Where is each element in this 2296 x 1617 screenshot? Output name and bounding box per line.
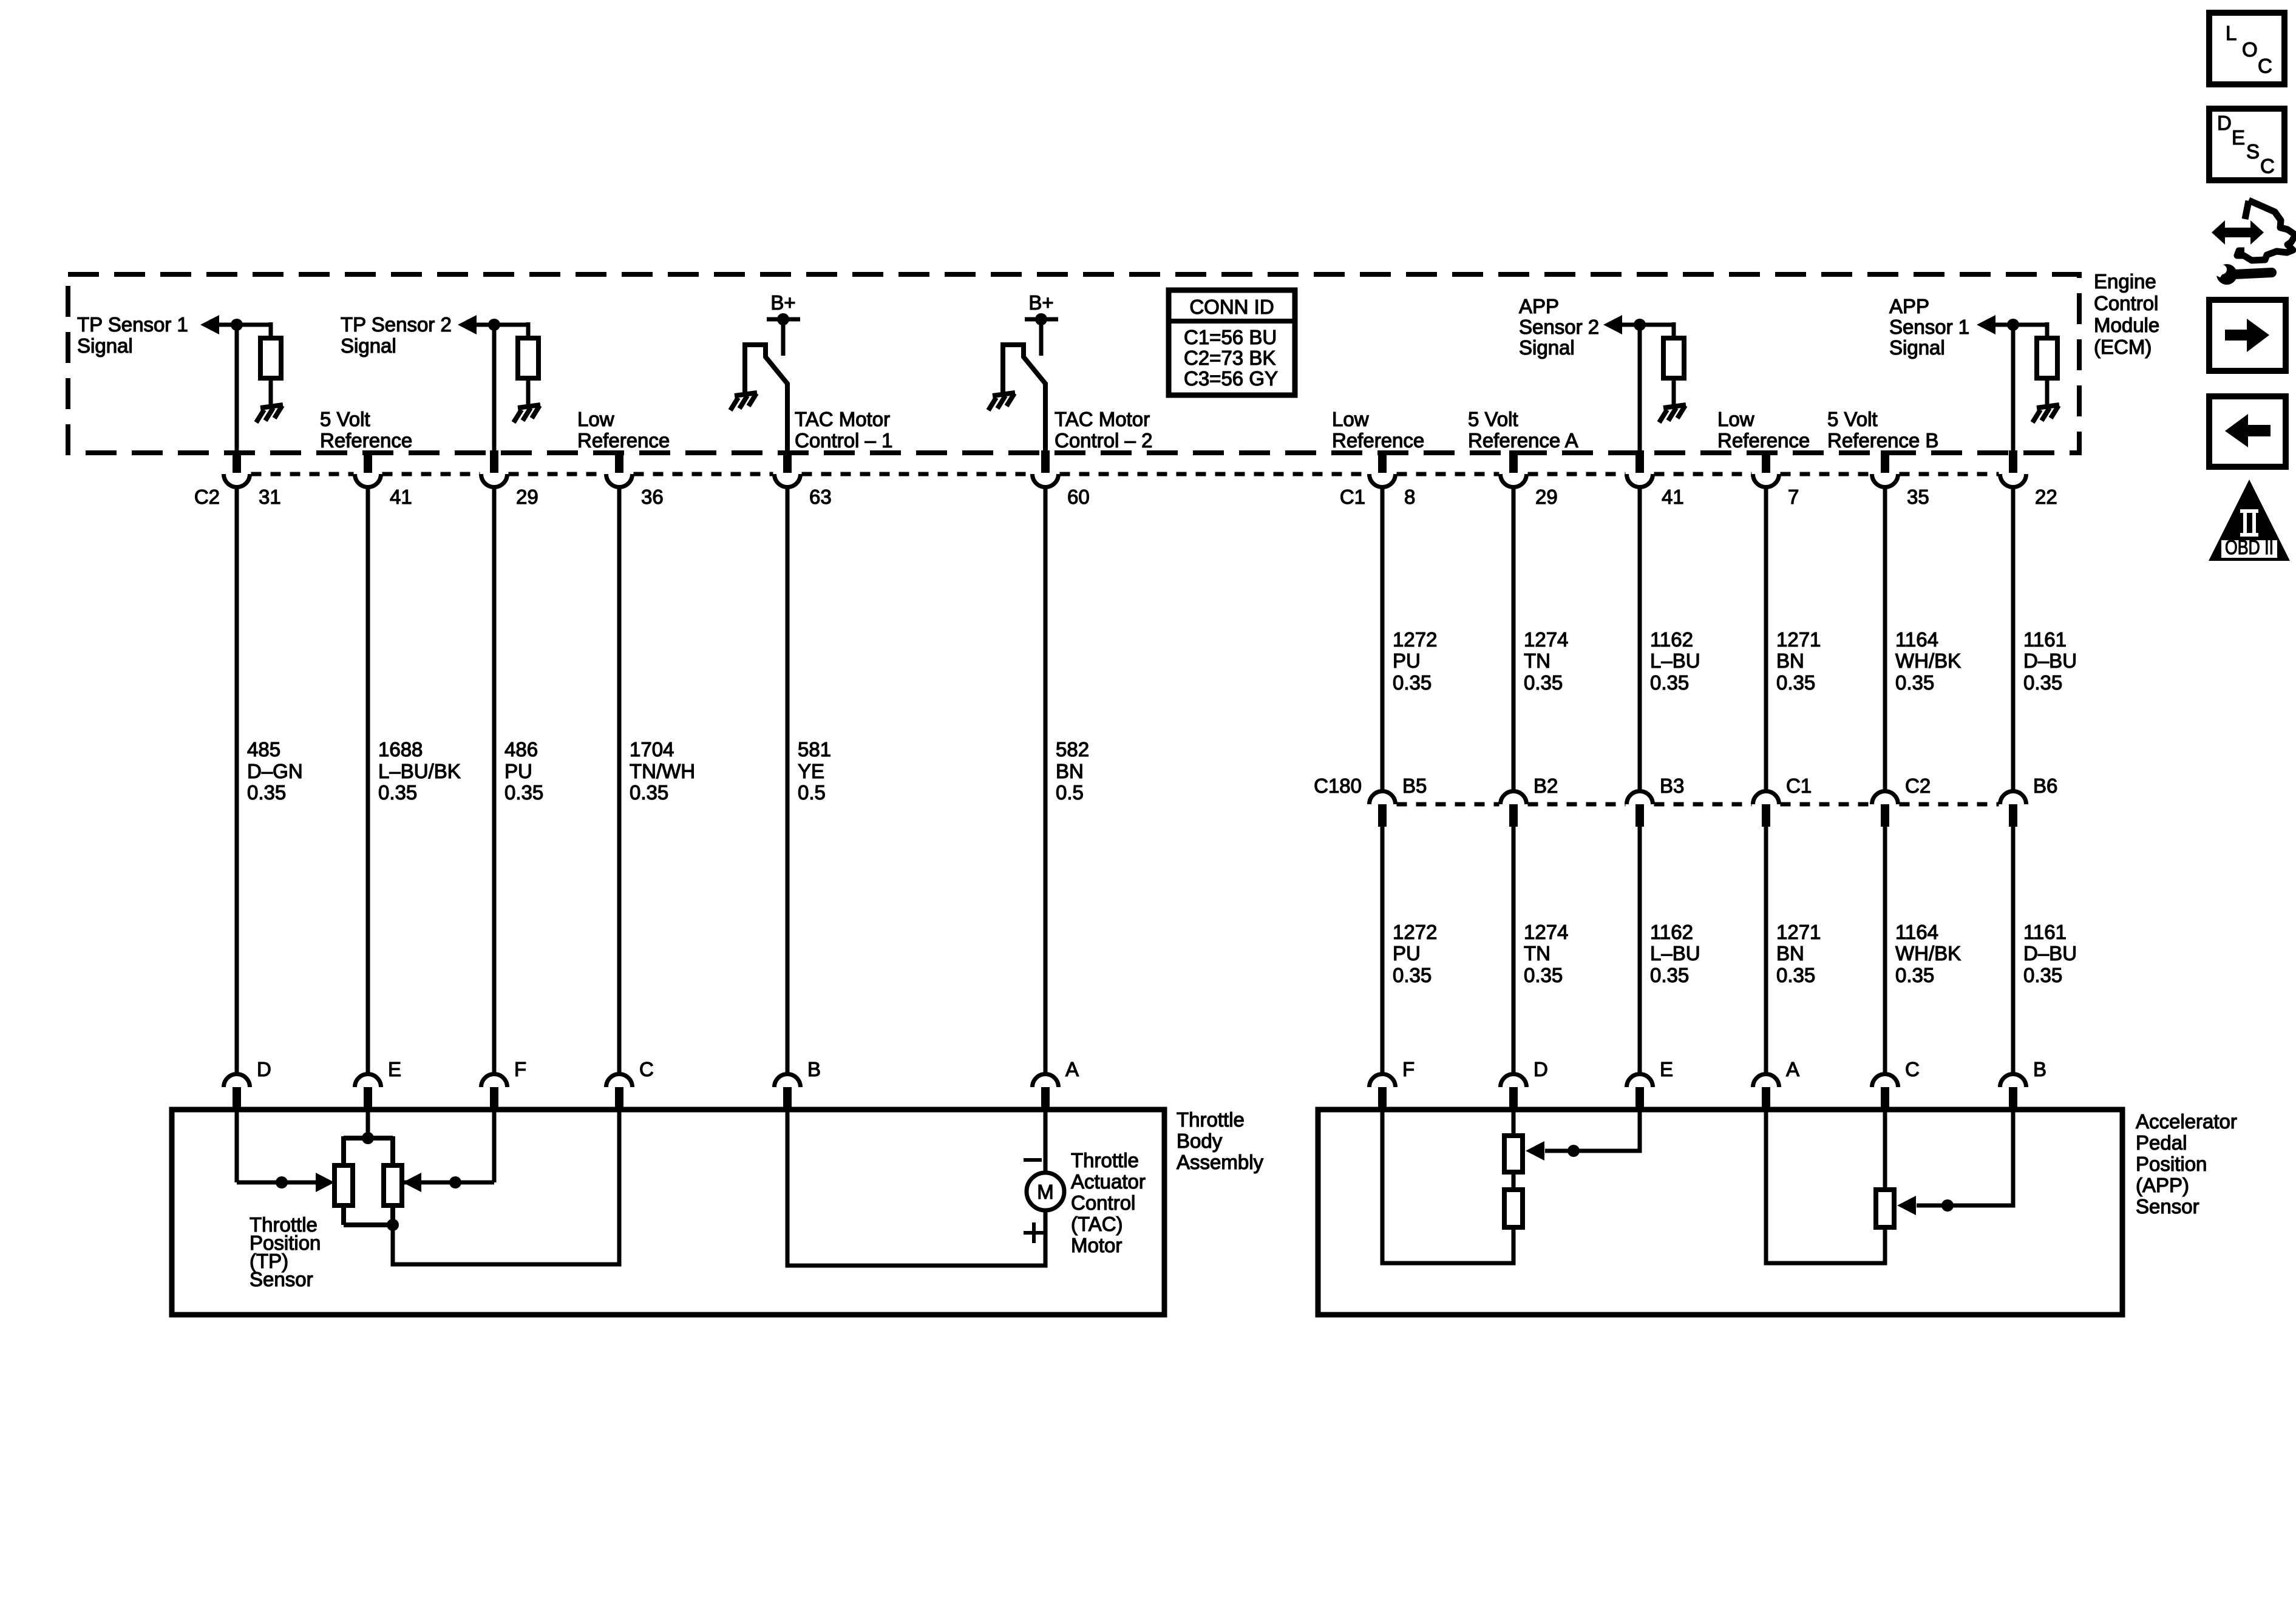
icon harness connector outline	[2237, 200, 2295, 260]
svg-text:Engine: Engine	[2094, 270, 2156, 293]
svg-text:7: 7	[1788, 486, 1799, 508]
ECM pin 31 connector terminal	[224, 474, 250, 487]
svg-text:1162: 1162	[1650, 628, 1693, 651]
icon back arrow box	[2209, 396, 2286, 467]
svg-text:C3=56 GY: C3=56 GY	[1184, 367, 1278, 390]
sensor connector terminal C (x=1020)	[606, 1074, 633, 1087]
sensor pin stub D	[233, 1087, 241, 1112]
svg-text:22: 22	[2035, 486, 2057, 508]
wire from ECM to throttle body (x=814)	[492, 488, 497, 1074]
svg-text:0.5: 0.5	[1056, 781, 1084, 804]
node APP1 junction	[2007, 319, 2019, 331]
CONN ID table	[1169, 290, 1295, 395]
svg-text:Control: Control	[1071, 1192, 1135, 1214]
svg-text:B6: B6	[2033, 775, 2057, 797]
node E junction	[1567, 1145, 1580, 1157]
node F junction	[449, 1176, 461, 1188]
ground APP Sensor 1	[2033, 405, 2059, 422]
B+ supply bar	[767, 317, 800, 322]
APP1 wiper arrow	[1897, 1196, 1916, 1215]
ECM pin 8 stub	[1378, 450, 1387, 473]
wire pin F down	[492, 1110, 497, 1182]
motor TAC (M)	[1027, 1173, 1064, 1210]
ground TP Sensor 2	[514, 405, 540, 422]
resistor TP Sensor 1 pull-up	[260, 338, 281, 378]
ECM pin 41 connector terminal	[1627, 474, 1653, 487]
wire resistor to ground	[269, 378, 273, 406]
C180 pin stub B6	[2009, 804, 2017, 827]
C180 terminal B6	[2000, 792, 2026, 805]
svg-text:A: A	[1786, 1058, 1799, 1080]
svg-text:BN: BN	[1776, 942, 1804, 964]
svg-text:35: 35	[1907, 486, 1929, 508]
svg-text:L–BU: L–BU	[1650, 942, 1700, 964]
node E junction	[362, 1132, 374, 1144]
svg-text:Low: Low	[1717, 408, 1754, 430]
svg-text:(TAC): (TAC)	[1071, 1213, 1123, 1235]
svg-text:0.35: 0.35	[630, 781, 668, 804]
ECM pin 41 stub	[1635, 450, 1644, 473]
ECM pin 29 stub	[490, 450, 498, 473]
switch TAC driver blade	[745, 345, 787, 453]
wire TP1 down to pin 31	[235, 325, 239, 453]
icon harness double arrow	[2212, 220, 2264, 245]
C180 terminal B2	[1501, 792, 1527, 805]
svg-text:1274: 1274	[1524, 921, 1568, 943]
svg-text:Signal: Signal	[77, 334, 133, 357]
C180 pin stub B2	[1509, 804, 1518, 827]
svg-text:TN: TN	[1524, 649, 1550, 672]
wire APP1 to resistor	[2045, 322, 2050, 338]
svg-text:0.35: 0.35	[378, 781, 417, 804]
svg-text:L–BU: L–BU	[1650, 649, 1700, 672]
svg-text:41: 41	[390, 486, 412, 508]
sensor connector terminal F (x=2277)	[1370, 1074, 1396, 1087]
svg-text:0.5: 0.5	[798, 781, 826, 804]
wire APP Sensor 1 signal	[1992, 323, 2047, 327]
ECM pin 35 stub	[1881, 450, 1889, 473]
svg-text:C: C	[1905, 1058, 1920, 1080]
node B+	[777, 313, 789, 325]
wire C180 to APP sensor (x=2493)	[1512, 805, 1516, 1074]
svg-text:O: O	[2242, 38, 2258, 61]
resistor APP1 element	[1876, 1190, 1894, 1227]
sensor connector terminal D (x=390)	[224, 1074, 250, 1087]
ground APP Sensor 2	[1659, 405, 1686, 422]
svg-text:B: B	[807, 1058, 821, 1080]
svg-text:Signal: Signal	[1519, 336, 1575, 359]
ECM pin 29 connector terminal	[481, 474, 508, 487]
ECM pin 7 connector terminal	[1753, 474, 1779, 487]
svg-text:D–BU: D–BU	[2023, 942, 2077, 964]
svg-text:Sensor 2: Sensor 2	[1519, 316, 1599, 338]
svg-text:Reference: Reference	[577, 429, 670, 452]
wire from ECM to throttle body (x=606)	[366, 488, 370, 1074]
wire ECM to C180 (x=2701)	[1638, 488, 1642, 791]
ECM pin 22 connector terminal	[2000, 474, 2026, 487]
ECM pin 41 connector terminal	[355, 474, 381, 487]
wire pin C down	[1883, 1110, 1887, 1190]
svg-text:Reference: Reference	[1332, 429, 1424, 452]
svg-text:Reference B: Reference B	[1827, 429, 1938, 452]
ground TAC driver	[730, 393, 757, 410]
wire resistor to ground	[2045, 378, 2050, 406]
svg-text:1274: 1274	[1524, 628, 1568, 651]
svg-text:1161: 1161	[2023, 921, 2067, 943]
svg-text:TN/WH: TN/WH	[630, 760, 695, 782]
svg-text:Motor: Motor	[1071, 1234, 1122, 1256]
svg-text:Throttle: Throttle	[1071, 1149, 1139, 1171]
wire ECM to C180 (x=3316)	[2011, 488, 2016, 791]
wire C180 to APP sensor (x=2277)	[1381, 805, 1385, 1074]
TP Sensor 1 signal arrow	[200, 315, 219, 334]
svg-text:0.35: 0.35	[1895, 964, 1934, 986]
svg-text:581: 581	[798, 738, 831, 761]
ECM pin 7 stub	[1762, 450, 1770, 473]
svg-text:1688: 1688	[378, 738, 423, 761]
ECM module box (dashed)	[68, 274, 2079, 453]
svg-text:0.35: 0.35	[1524, 964, 1563, 986]
Accelerator Pedal Position (APP) Sensor box	[1318, 1110, 2122, 1315]
svg-text:TAC Motor: TAC Motor	[795, 408, 890, 430]
svg-text:486: 486	[504, 738, 538, 761]
sensor pin stub F	[1378, 1087, 1387, 1112]
svg-text:0.35: 0.35	[1393, 964, 1432, 986]
svg-text:F: F	[514, 1058, 526, 1080]
C180 terminal C1	[1753, 792, 1779, 805]
svg-text:Assembly: Assembly	[1177, 1151, 1264, 1173]
ECM pin 36 connector terminal	[606, 474, 633, 487]
sensor pin stub C	[1881, 1087, 1889, 1112]
wire pin A to motor	[1044, 1110, 1048, 1173]
resistor TP Sensor 2 pull-up	[518, 338, 538, 378]
wire ECM to C180 (x=2493)	[1512, 488, 1516, 791]
svg-text:0.35: 0.35	[1895, 671, 1934, 694]
svg-text:E: E	[2232, 126, 2245, 149]
C180 pin stub C1	[1762, 804, 1770, 827]
wire TP output to pin C	[393, 1110, 619, 1264]
svg-text:Sensor: Sensor	[2136, 1195, 2199, 1218]
svg-text:1162: 1162	[1650, 921, 1693, 943]
sensor connector terminal E (x=606)	[355, 1074, 381, 1087]
icon forward arrow box	[2209, 300, 2286, 371]
wire pin E down	[1545, 1110, 1640, 1151]
svg-text:36: 36	[641, 486, 664, 508]
svg-text:PU: PU	[1393, 649, 1421, 672]
svg-text:(ECM): (ECM)	[2094, 336, 2152, 358]
ECM pin 8 connector terminal	[1370, 474, 1396, 487]
node APP2 junction	[1634, 319, 1646, 331]
svg-text:0.35: 0.35	[1393, 671, 1432, 694]
sensor pin stub F	[490, 1087, 498, 1112]
svg-text:WH/BK: WH/BK	[1895, 649, 1961, 672]
svg-text:1272: 1272	[1393, 921, 1437, 943]
wire pin D down	[235, 1110, 239, 1182]
ground TAC driver	[988, 393, 1015, 410]
svg-text:PU: PU	[504, 760, 532, 782]
svg-text:0.35: 0.35	[2023, 671, 2062, 694]
svg-text:B+: B+	[770, 291, 795, 314]
svg-text:C1: C1	[1340, 486, 1365, 508]
svg-text:63: 63	[809, 486, 832, 508]
node TP output junction	[387, 1219, 399, 1231]
icon LOC box	[2209, 13, 2284, 84]
wire TP Sensor 2 signal	[473, 323, 528, 327]
wire APP1 down to pin 22	[2011, 325, 2016, 453]
sensor connector terminal A (x=1722)	[1033, 1074, 1059, 1087]
svg-text:L: L	[2226, 22, 2237, 44]
svg-text:0.35: 0.35	[1650, 671, 1689, 694]
C180 terminal B3	[1627, 792, 1653, 805]
svg-text:1272: 1272	[1393, 628, 1437, 651]
svg-text:Signal: Signal	[1889, 336, 1945, 359]
svg-text:(APP): (APP)	[2136, 1174, 2189, 1196]
ECM connector C1/C2 dotted line	[251, 472, 1999, 476]
svg-text:Throttle: Throttle	[1177, 1108, 1245, 1131]
svg-text:0.35: 0.35	[1776, 964, 1815, 986]
wire C180 to APP sensor (x=2701)	[1638, 805, 1642, 1074]
sensor connector terminal C (x=3105)	[1872, 1074, 1898, 1087]
wire APP2 to resistor	[1672, 322, 1676, 338]
ECM pin 41 stub	[364, 450, 372, 473]
sensor pin stub A	[1041, 1087, 1050, 1112]
svg-text:C2: C2	[1905, 775, 1931, 797]
svg-text:M: M	[1037, 1181, 1054, 1203]
svg-text:Sensor 1: Sensor 1	[1889, 316, 1969, 338]
svg-text:D: D	[2217, 112, 2232, 134]
svg-text:TN: TN	[1524, 942, 1550, 964]
sensor connector terminal A (x=2909)	[1753, 1074, 1779, 1087]
node D junction	[276, 1176, 288, 1188]
svg-text:Pedal: Pedal	[2136, 1131, 2187, 1154]
svg-text:1271: 1271	[1776, 921, 1821, 943]
connector C180 dotted line	[1397, 802, 1999, 807]
C180 pin stub C2	[1881, 804, 1889, 827]
resistor APP2 upper element	[1504, 1136, 1523, 1172]
svg-text:5 Volt: 5 Volt	[320, 408, 370, 430]
resistor APP Sensor 2 pull-up	[1663, 338, 1684, 378]
wire TP Sensor 1 signal	[216, 323, 271, 327]
svg-text:Control – 1: Control – 1	[795, 429, 892, 452]
APP Sensor 2 signal arrow	[1603, 315, 1622, 334]
icon DESC box	[2209, 109, 2284, 180]
resistor TP element right	[384, 1165, 402, 1205]
APP2 wiper arrow	[1526, 1141, 1544, 1161]
svg-text:B+: B+	[1028, 291, 1053, 314]
svg-text:0.35: 0.35	[1650, 964, 1689, 986]
wire pin B down	[787, 1110, 1045, 1266]
wire F to TP wiper	[402, 1181, 494, 1185]
svg-text:APP: APP	[1519, 295, 1559, 317]
ECM pin 35 connector terminal	[1872, 474, 1898, 487]
wire ECM to C180 (x=2277)	[1381, 488, 1385, 791]
ECM pin 22 stub	[2009, 450, 2017, 473]
sensor pin stub E	[1635, 1087, 1644, 1112]
svg-text:Module: Module	[2094, 314, 2159, 336]
wire pin E down	[366, 1110, 370, 1138]
sensor connector terminal D (x=2493)	[1501, 1074, 1527, 1087]
wire pin D down	[1512, 1110, 1516, 1136]
svg-text:29: 29	[1535, 486, 1558, 508]
wire from ECM to throttle body (x=1297)	[786, 488, 790, 1074]
svg-text:A: A	[1065, 1058, 1079, 1080]
C180 terminal B5	[1370, 792, 1396, 805]
svg-text:D–BU: D–BU	[2023, 649, 2077, 672]
svg-text:Reference: Reference	[320, 429, 412, 452]
ECM pin 36 stub	[615, 450, 623, 473]
wire TP2 to resistor	[526, 322, 531, 338]
sensor pin stub A	[1762, 1087, 1770, 1112]
wire D to TP wiper	[237, 1181, 316, 1185]
wire pin B down	[1917, 1110, 2013, 1205]
svg-text:PU: PU	[1393, 942, 1421, 964]
svg-text:L–BU/BK: L–BU/BK	[378, 760, 461, 782]
wire APP Sensor 2 signal	[1618, 323, 1674, 327]
wire C180 to APP sensor (x=3316)	[2011, 805, 2016, 1074]
svg-text:Low: Low	[1332, 408, 1369, 430]
svg-text:D: D	[1533, 1058, 1548, 1080]
svg-text:Accelerator: Accelerator	[2136, 1110, 2237, 1133]
svg-text:Body: Body	[1177, 1130, 1223, 1152]
svg-text:WH/BK: WH/BK	[1895, 942, 1961, 964]
wire ECM to C180 (x=2909)	[1764, 488, 1768, 791]
sensor pin stub E	[364, 1087, 372, 1112]
ECM pin 29 connector terminal	[1501, 474, 1527, 487]
ECM pin 63 stub	[783, 450, 792, 473]
svg-text:1271: 1271	[1776, 628, 1821, 651]
svg-text:APP: APP	[1889, 295, 1929, 317]
svg-text:Sensor: Sensor	[250, 1268, 313, 1290]
wire between APP2 elements	[1512, 1172, 1516, 1190]
svg-text:0.35: 0.35	[1524, 671, 1563, 694]
svg-text:B3: B3	[1660, 775, 1684, 797]
resistor APP2 lower element	[1504, 1190, 1523, 1227]
node TP1 junction	[231, 319, 243, 331]
node B+	[1035, 313, 1047, 325]
wire B+ stub	[1039, 319, 1044, 356]
svg-text:41: 41	[1662, 486, 1684, 508]
motor plus sign	[1024, 1231, 1044, 1235]
svg-text:B5: B5	[1402, 775, 1427, 797]
switch TAC driver blade	[1003, 345, 1045, 453]
TP wiper arrow (right)	[402, 1173, 421, 1192]
svg-text:TP Sensor 1: TP Sensor 1	[77, 313, 188, 336]
svg-text:C1: C1	[1786, 775, 1812, 797]
svg-text:485: 485	[247, 738, 280, 761]
svg-text:0.35: 0.35	[504, 781, 543, 804]
C180 pin stub B5	[1378, 804, 1387, 827]
wire TP bottom bar	[344, 1205, 393, 1225]
ECM pin 60 connector terminal	[1033, 474, 1059, 487]
svg-text:C: C	[2260, 155, 2275, 177]
svg-text:Low: Low	[577, 408, 614, 430]
svg-text:B: B	[2033, 1058, 2046, 1080]
svg-text:0.35: 0.35	[2023, 964, 2062, 986]
ECM pin 29 stub	[1509, 450, 1518, 473]
sensor connector terminal E (x=2701)	[1627, 1074, 1653, 1087]
svg-text:YE: YE	[798, 760, 824, 782]
svg-text:Reference: Reference	[1717, 429, 1810, 452]
svg-text:5 Volt: 5 Volt	[1827, 408, 1878, 430]
wire TP1 to resistor	[269, 322, 273, 338]
Throttle Body Assembly box	[172, 1110, 1164, 1315]
svg-text:Control – 2: Control – 2	[1055, 429, 1152, 452]
svg-text:C: C	[2258, 55, 2272, 77]
svg-text:D–GN: D–GN	[247, 760, 303, 782]
TP Sensor 2 signal arrow	[458, 315, 477, 334]
svg-text:Actuator: Actuator	[1071, 1170, 1146, 1193]
sensor pin stub C	[615, 1087, 623, 1112]
svg-text:C1=56 BU: C1=56 BU	[1184, 326, 1277, 348]
svg-text:Signal: Signal	[341, 334, 396, 357]
svg-text:OBD II: OBD II	[2225, 536, 2274, 558]
svg-text:E: E	[388, 1058, 401, 1080]
svg-text:C: C	[639, 1058, 654, 1080]
svg-text:F: F	[1402, 1058, 1415, 1080]
ECM pin 63 connector terminal	[775, 474, 801, 487]
sensor connector terminal F (x=814)	[481, 1074, 508, 1087]
wire resistor to ground	[526, 378, 531, 406]
svg-text:31: 31	[259, 486, 281, 508]
wire ECM to C180 (x=3105)	[1883, 488, 1887, 791]
svg-text:Control: Control	[2094, 292, 2158, 314]
C180 pin stub B3	[1635, 804, 1644, 827]
svg-text:0.35: 0.35	[1776, 671, 1815, 694]
svg-text:C2=73 BK: C2=73 BK	[1184, 347, 1275, 369]
motor minus sign	[1024, 1158, 1042, 1162]
ECM pin 60 stub	[1041, 450, 1050, 473]
sensor connector terminal B (x=1297)	[775, 1074, 801, 1087]
wire from ECM to throttle body (x=390)	[235, 488, 239, 1074]
ECM pin 31 stub	[233, 450, 241, 473]
svg-text:29: 29	[516, 486, 538, 508]
svg-text:Position: Position	[2136, 1153, 2207, 1175]
svg-text:C2: C2	[194, 486, 220, 508]
node TP2 junction	[488, 319, 500, 331]
icon OBD II triangle	[2209, 480, 2290, 561]
wire B+ stub	[781, 319, 786, 356]
wire TP top bar	[344, 1136, 393, 1165]
svg-text:1161: 1161	[2023, 628, 2067, 651]
sensor connector terminal B (x=3316)	[2000, 1074, 2026, 1087]
svg-text:8: 8	[1404, 486, 1415, 508]
svg-text:5 Volt: 5 Volt	[1468, 408, 1518, 430]
B+ supply bar	[1025, 317, 1058, 322]
svg-text:60: 60	[1067, 486, 1090, 508]
sensor pin stub B	[783, 1087, 792, 1112]
icon wrench	[2216, 264, 2237, 285]
svg-text:1164: 1164	[1895, 921, 1938, 943]
ground TP Sensor 1	[256, 405, 283, 422]
svg-text:BN: BN	[1776, 649, 1804, 672]
svg-text:S: S	[2246, 140, 2260, 163]
svg-text:TP Sensor 2: TP Sensor 2	[341, 313, 452, 336]
C180 terminal C2	[1872, 792, 1898, 805]
svg-text:Reference A: Reference A	[1468, 429, 1578, 452]
sensor pin stub D	[1509, 1087, 1518, 1112]
svg-text:D: D	[257, 1058, 271, 1080]
wire TP2 down to pin 29	[492, 325, 497, 453]
node B junction	[1941, 1199, 1954, 1212]
svg-text:TAC Motor: TAC Motor	[1055, 408, 1150, 430]
svg-text:0.35: 0.35	[247, 781, 286, 804]
svg-text:BN: BN	[1056, 760, 1084, 782]
wire pin A to APP1 bottom	[1766, 1110, 1885, 1263]
svg-text:C180: C180	[1314, 775, 1362, 797]
wire C180 to APP sensor (x=2909)	[1764, 805, 1768, 1074]
svg-text:E: E	[1660, 1058, 1673, 1080]
sensor pin stub B	[2009, 1087, 2017, 1112]
